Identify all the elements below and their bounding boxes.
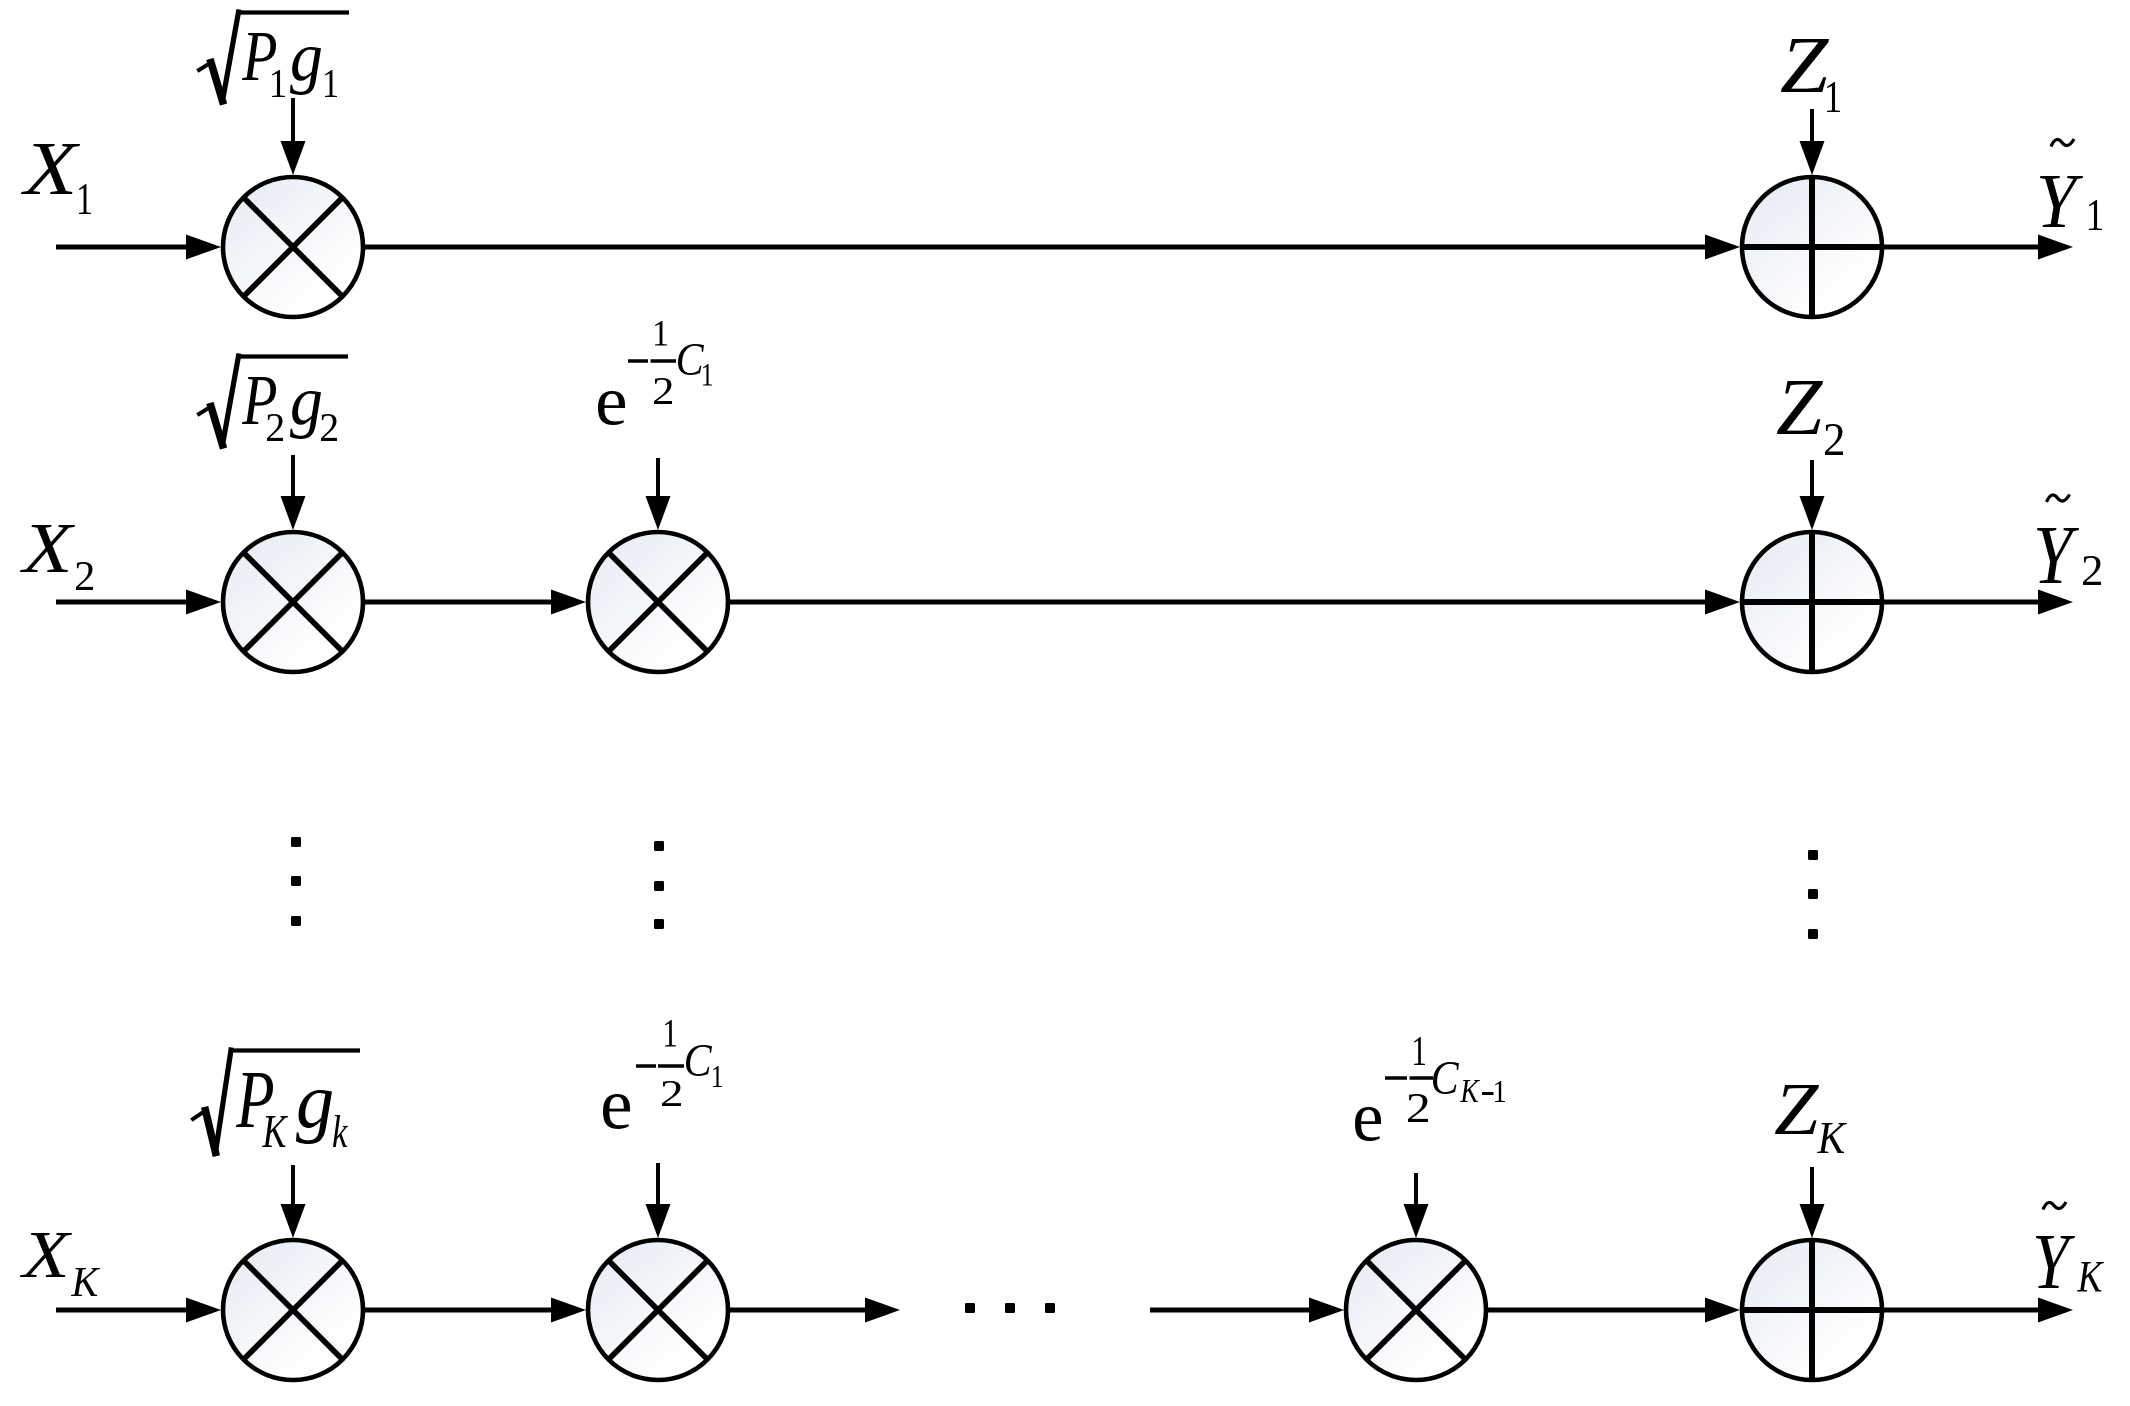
label XK <box>20 1233 100 1296</box>
wire row2 line to adder <box>728 590 1740 615</box>
wire row2 mult-to-mult <box>363 590 586 615</box>
wire X2 input <box>56 590 221 615</box>
wire gain arrow row2 <box>281 455 306 530</box>
label Z2 <box>1777 381 1843 455</box>
label exp(-1/2 C1) rowK <box>603 1020 722 1129</box>
wire exp arrow rowK col3 <box>1404 1173 1429 1238</box>
wire Y2 output <box>1882 590 2073 615</box>
wire rowK arrow to dots <box>728 1298 900 1323</box>
label Z1 <box>1781 39 1840 112</box>
wire XK input <box>56 1298 221 1323</box>
wire ZK arrow <box>1800 1167 1825 1238</box>
multiplier MK3 (x exp(-CK-1/2)) <box>1346 1240 1486 1380</box>
wire row1 line to adder <box>363 235 1740 260</box>
label sqrt(P1 g1) <box>199 12 349 101</box>
label sqrt(P2 g2) <box>199 356 348 445</box>
multiplier M2a (x sqrt P2g2) <box>223 532 363 672</box>
wire gain arrow row1 <box>281 98 306 175</box>
label X1 <box>21 144 91 214</box>
label exp(-1/2 CK-1) <box>1355 1037 1505 1141</box>
label sqrt(PK gk) <box>193 1050 360 1153</box>
wire gain arrow rowK <box>281 1165 306 1238</box>
wire Y1 output <box>1882 235 2073 260</box>
horizontal dots rowK <box>965 1303 1055 1313</box>
wire Z2 arrow <box>1800 460 1825 530</box>
vertical dots column 3 <box>1808 850 1818 939</box>
multiplier MK1 (x sqrt PKgk) <box>223 1240 363 1380</box>
wire rowK mult-to-mult <box>363 1298 586 1323</box>
wire exp arrow row2 <box>646 458 671 530</box>
wire YK output <box>1882 1298 2073 1323</box>
label X2 <box>20 525 93 590</box>
label Y2 <box>2037 495 2101 586</box>
label exp(-1/2 C1) row2 <box>598 321 712 425</box>
wire exp arrow rowK col2 <box>646 1163 671 1238</box>
label Y1 <box>2040 139 2102 230</box>
adder AK <box>1740 1239 1884 1381</box>
label ZK <box>1775 1085 1847 1153</box>
vertical dots column 1 <box>291 837 301 926</box>
adder A2 <box>1740 531 1884 673</box>
multiplier MK2 (x exp(-C1/2)) <box>588 1240 728 1380</box>
vertical dots column 2 <box>654 841 664 929</box>
wire X1 input <box>56 235 221 260</box>
label YK <box>2036 1202 2104 1292</box>
wire Z1 arrow <box>1800 109 1825 175</box>
multiplier M2b (x exp(-C1/2)) <box>588 532 728 672</box>
wire rowK line to MK3 <box>1150 1298 1344 1323</box>
adder A1 <box>1740 176 1884 318</box>
multiplier M1 (x sqrt P1g1) <box>223 177 363 317</box>
wire rowK line to adder <box>1486 1298 1740 1323</box>
